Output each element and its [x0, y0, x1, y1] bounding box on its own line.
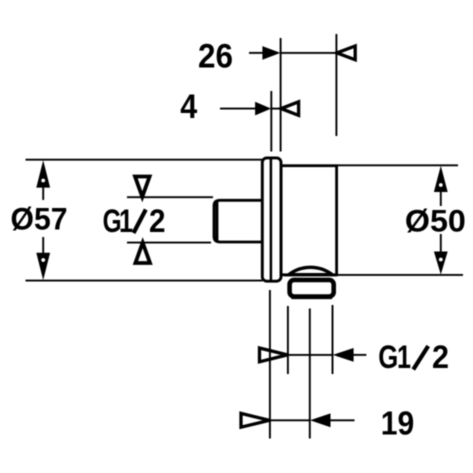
- dim G1/2 outlet: label: [378, 339, 449, 375]
- dim G1/2 outlet: right filled arrow with tail: [333, 348, 367, 362]
- dim Ø57: up arrow: [36, 160, 50, 187]
- dim 26: extension line at body front: [280, 38, 282, 152]
- dim 19: dimension line: [270, 419, 310, 421]
- dim G1/2 thread: down open arrow: [135, 177, 150, 197]
- nipple chamfer line: [215, 202, 218, 241]
- dim 26: right open arrow: [337, 46, 355, 60]
- svg-text:26: 26: [198, 37, 233, 75]
- dim 4: right open arrow: [281, 102, 299, 116]
- dim 19: left extension line (wall face): [269, 290, 271, 439]
- dim 19: left open arrow: [241, 413, 270, 427]
- svg-text:1: 1: [397, 339, 411, 375]
- dim G1/2 thread: label: [103, 203, 166, 239]
- dim Ø57: bottom extension line: [26, 280, 263, 282]
- dim G1/2 outlet: right extension line: [332, 305, 334, 374]
- dim 26: dimension line: [281, 52, 337, 54]
- dim Ø50: bottom extension line: [338, 274, 463, 276]
- dim 4: extension line at flange rear: [270, 91, 272, 152]
- dim 4: label: [180, 88, 197, 126]
- nipple G1/2 wall thread: [214, 200, 266, 242]
- dim 19: outlet centre line: [309, 309, 311, 439]
- dim Ø57: down arrow: [36, 253, 50, 280]
- dim Ø50: top extension line: [338, 164, 458, 166]
- svg-text:4: 4: [180, 88, 197, 126]
- dim G1/2 outlet: left open arrow: [260, 348, 288, 362]
- dim G1/2 thread: top extension line: [127, 196, 213, 198]
- dim Ø57: label: [11, 201, 68, 237]
- body drum (Ø50 cylinder side view): [281, 166, 337, 275]
- flange plate (Ø57 wall rosette): [262, 158, 281, 281]
- svg-text:19: 19: [381, 405, 415, 442]
- flange inner edge: [270, 159, 273, 281]
- svg-text:1: 1: [119, 203, 133, 239]
- dim 4: dimension line: [271, 108, 280, 110]
- dim 26: label: [198, 37, 233, 75]
- dim G1/2 outlet: dimension line: [288, 354, 333, 356]
- dim Ø50: down arrow: [434, 252, 448, 275]
- svg-text:2: 2: [149, 203, 166, 239]
- dim Ø50: dimension line segments: [440, 190, 442, 254]
- svg-text:Ø50: Ø50: [405, 203, 466, 239]
- svg-text:G: G: [378, 339, 398, 375]
- dim Ø57: top extension line: [26, 159, 263, 161]
- dim 26: extension line at body rear: [335, 34, 337, 136]
- dim 4: left filled arrow with tail: [220, 102, 271, 116]
- dim Ø50: label: [405, 203, 466, 239]
- svg-text:2: 2: [432, 339, 449, 375]
- svg-text:Ø57: Ø57: [11, 201, 68, 237]
- dim 19: label: [381, 405, 415, 442]
- dim 26: left filled arrow with tail: [249, 46, 280, 60]
- outlet nut G1/2: [290, 280, 334, 297]
- dim Ø57: dimension line segments: [42, 186, 44, 256]
- dim G1/2 thread: up open arrow: [135, 243, 150, 263]
- dim Ø50: up arrow: [434, 166, 448, 192]
- dim G1/2 outlet: left extension line: [287, 306, 289, 374]
- dim 19: right filled arrow with tail: [310, 413, 355, 427]
- outlet shoulder dome: [289, 267, 333, 274]
- dim G1/2 thread: bottom extension line: [127, 242, 211, 244]
